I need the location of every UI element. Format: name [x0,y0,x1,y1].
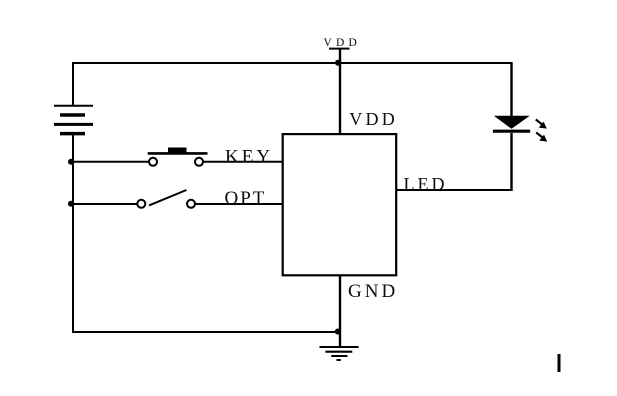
wire GND pin of U1 [339,275,341,348]
LED light arrow 1 [536,120,547,129]
wire battery top lead [72,62,74,107]
wire left vertical (battery negative to bottom bus) [72,135,74,333]
node junction dot KEY tap [68,159,74,165]
wire OPT right segment to U1 [196,203,284,205]
svg-text:VDD: VDD [349,109,398,129]
node junction dot VDD rail [335,60,341,66]
svg-text:KEY: KEY [225,147,273,168]
pushbutton switch KEY [148,148,208,166]
wire top bus VDD rail [72,62,512,64]
wire VDD pin of U1 [339,63,341,135]
node junction dot OPT tap [68,201,74,207]
LED light arrow 2 [536,133,547,142]
toggle switch OPT [137,190,195,208]
wire LED anode (from top bus) [510,62,512,117]
wire OPT left segment [73,203,137,205]
op-amp U1 (MCU block) [283,134,397,275]
battery BT1 [54,106,93,134]
svg-text:OPT: OPT [225,188,267,209]
LED D1 [493,116,530,191]
wire KEY left segment [73,161,149,163]
VDD power symbol [329,49,350,63]
wire LED pin of U1 [396,189,512,191]
node junction dot GND [335,329,341,335]
wire bottom bus [73,331,340,333]
ground symbol [320,347,359,360]
svg-text:VDD: VDD [324,37,362,49]
svg-text:GND: GND [348,281,398,302]
text cursor mark [558,354,561,372]
wire KEY right segment to U1 [204,161,284,163]
svg-text:LED: LED [404,174,448,194]
